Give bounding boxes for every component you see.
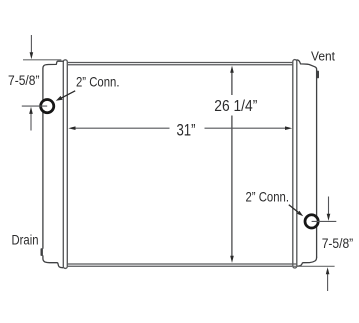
svg-text:Vent: Vent: [311, 49, 335, 64]
svg-text:2” Conn.: 2” Conn.: [246, 189, 290, 205]
drain tab: [41, 248, 43, 256]
top-left 7-5/8 extension line (to circle center): [22, 105, 47, 107]
core bottom double line: [66, 264, 294, 266]
svg-text:Drain: Drain: [12, 231, 39, 247]
core line stubs across right tube: [293, 263, 297, 265]
left tank outline: [43, 61, 63, 268]
svg-text:7-5/8”: 7-5/8”: [8, 72, 40, 88]
right tank-to-core gasket tube: [293, 60, 297, 268]
right 2in connection circle: [305, 215, 318, 228]
bottom-right 7-5/8 up arrow: [327, 274, 329, 291]
left tank-to-core gasket tube: [63, 60, 67, 269]
bottom-right 7-5/8 down arrow: [328, 197, 330, 215]
dimension 31 horizontal line: [75, 127, 286, 129]
svg-text:2” Conn.: 2” Conn.: [76, 73, 120, 89]
dimension 26 1/4 arrowheads: [230, 66, 234, 73]
vent tab: [317, 71, 319, 79]
left 2in Conn. leader arrow: [62, 91, 76, 98]
top-left 7-5/8 extension line (tank top): [23, 59, 61, 61]
svg-text:26 1/4”: 26 1/4”: [214, 98, 257, 115]
svg-text:31”: 31”: [177, 121, 196, 139]
bottom-right 7-5/8 extension line (bottom): [291, 265, 335, 267]
left 2in connection circle: [41, 100, 54, 113]
dimension 31 arrowheads: [68, 126, 75, 130]
right tank outline: [297, 60, 317, 266]
right 2in Conn. leader arrow: [289, 205, 298, 213]
top-left 7-5/8 down arrow: [30, 35, 32, 53]
dimension 26 1/4 vertical line: [231, 72, 233, 257]
bottom-right 7-5/8 extension line (from circle center): [312, 220, 337, 222]
svg-text:7-5/8”: 7-5/8”: [322, 235, 354, 251]
core top double line: [66, 63, 294, 65]
top-left 7-5/8 up arrow: [30, 113, 32, 130]
